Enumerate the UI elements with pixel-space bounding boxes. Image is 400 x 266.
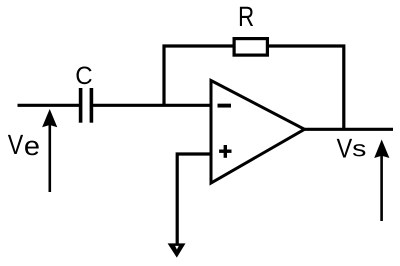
wire: feedback branch from input node up and right to resistor [164, 46, 233, 105]
label R [240, 7, 253, 26]
wire: output of op-amp to the right [303, 128, 393, 131]
resistor R [234, 39, 267, 56]
wire: resistor to output node, down to output wire [269, 46, 344, 129]
capacitor C [81, 88, 92, 123]
arrow Vs (output voltage) [374, 140, 389, 222]
ground (downward arrow) [168, 243, 186, 257]
label Ve [8, 135, 39, 155]
op-amp U1 [211, 81, 305, 184]
wire: input from source to capacitor [18, 104, 81, 107]
wire: capacitor to inverting input of op-amp [92, 104, 211, 107]
label C [77, 67, 92, 85]
wire: non-inverting input left and down to ground [177, 154, 211, 246]
label Vs [337, 139, 366, 158]
arrow Ve (input voltage) [42, 109, 57, 192]
